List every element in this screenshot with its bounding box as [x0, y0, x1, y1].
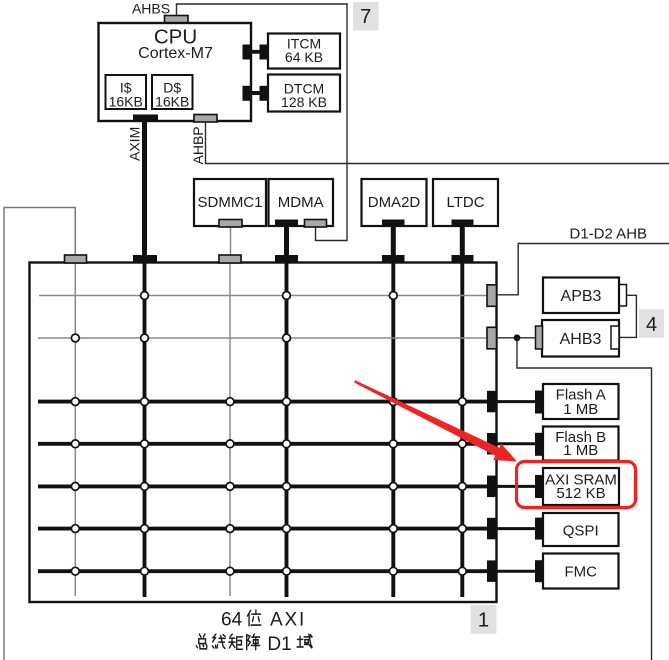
wire D1-D2 AHB	[497, 244, 669, 295]
ITCM link wire	[246, 50, 264, 54]
wire MDMA to matrix (thick)	[284, 226, 289, 258]
matrix row 5 (thick)	[38, 484, 490, 488]
svg-text:16KB: 16KB	[155, 94, 189, 110]
port matrix top col1 (gray)	[65, 255, 87, 263]
crosspoint circles row 5	[71, 483, 466, 491]
port AXI SRAM (black)	[535, 475, 544, 498]
port matrix right row6 (black)	[487, 518, 497, 540]
svg-text:AHBS: AHBS	[132, 1, 170, 17]
matrix row 1 (thin)	[39, 295, 490, 297]
I$ cache box	[106, 75, 147, 110]
svg-text:4: 4	[646, 314, 657, 336]
port AHB3 left (gray)	[536, 326, 543, 349]
port AHBP (gray) on CPU bottom	[194, 115, 217, 123]
Flash B box	[543, 427, 619, 461]
port AHBS (gray) on CPU top	[165, 16, 189, 24]
port MDMA AHBS side (gray)	[305, 220, 327, 228]
port matrix right row3 (black)	[487, 391, 497, 413]
port matrix top col6 (black)	[452, 255, 474, 263]
crosspoint circles row 1	[141, 292, 398, 300]
port matrix right row2 (gray)	[487, 327, 497, 349]
QSPI box	[543, 513, 619, 546]
wire DMA2D to matrix (thick)	[391, 226, 396, 258]
crosspoint circles row 6	[71, 525, 466, 533]
svg-text:64 KB: 64 KB	[285, 49, 323, 65]
port DMA2D (black)	[382, 220, 405, 228]
APB3 box	[543, 278, 619, 314]
crosspoint circles row 2	[71, 334, 290, 342]
svg-text:DMA2D: DMA2D	[368, 194, 421, 211]
MDMA box	[269, 179, 334, 226]
svg-text:MDMA: MDMA	[278, 194, 324, 211]
port FMC (black)	[535, 560, 544, 582]
svg-text:7: 7	[360, 6, 371, 28]
matrix row 3 (thick)	[38, 400, 490, 404]
svg-text:512 KB: 512 KB	[556, 485, 605, 502]
wire row2 to AHB3	[497, 337, 537, 339]
wire AHBS to MDMA (net 7 path)	[177, 4, 348, 241]
port CPU-DTCM (black)	[243, 86, 252, 101]
port Flash B (black)	[535, 433, 544, 456]
wire row7 to FMC	[497, 570, 538, 573]
DTCM box	[268, 75, 340, 112]
crosspoint circles row 7	[71, 567, 466, 575]
wire LTDC to matrix (thick)	[460, 226, 465, 258]
svg-text:1: 1	[478, 609, 489, 632]
CPU box	[99, 23, 252, 121]
AHB3 box	[542, 320, 619, 357]
D$ cache box	[152, 75, 193, 110]
FMC box	[543, 554, 619, 589]
matrix column 3 (thin)	[229, 263, 231, 596]
matrix column 1 (thin)	[74, 263, 76, 596]
matrix column 5 (thick)	[391, 263, 395, 597]
caption line 2: bus matrix D1 domain	[196, 634, 312, 655]
Flash A box	[543, 384, 619, 419]
port QSPI (black)	[535, 518, 544, 540]
junction dot	[514, 334, 521, 341]
port matrix top col2 (black)	[133, 255, 157, 263]
port matrix top col4 (black)	[275, 255, 298, 263]
caption line 1: 64 bit AXI	[221, 609, 306, 630]
port Flash A (black)	[535, 391, 544, 414]
port APB3 right tab	[619, 285, 627, 307]
wire left feeder to matrix column 1	[4, 208, 75, 660]
matrix row 7 (thick)	[38, 569, 490, 573]
red arrow	[354, 380, 517, 461]
svg-text:AHBP: AHBP	[190, 126, 206, 164]
svg-text:Cortex-M7: Cortex-M7	[138, 45, 213, 62]
svg-text:AXI: AXI	[270, 609, 306, 630]
port AXIM (black) on CPU bottom	[133, 115, 158, 123]
red highlight box around AXI SRAM	[517, 462, 636, 508]
svg-text:SDMMC1: SDMMC1	[197, 194, 262, 211]
port matrix right row7 (black)	[487, 560, 497, 582]
label 7 box	[353, 2, 379, 31]
matrix column 4 (thick)	[285, 263, 289, 597]
port AHB3 right (white)	[611, 326, 619, 349]
port SDMMC1 (gray)	[219, 220, 242, 228]
svg-text:FMC: FMC	[564, 564, 597, 581]
wire AHB3 branch down to bottom	[517, 338, 652, 660]
port matrix top col5 (black)	[382, 255, 405, 263]
matrix row 4 (thick)	[38, 442, 490, 446]
bus matrix box	[30, 263, 497, 603]
svg-text:LTDC: LTDC	[446, 194, 484, 211]
svg-text:APB3: APB3	[561, 288, 602, 305]
wire row3 to Flash A	[497, 400, 538, 403]
svg-text:D1: D1	[267, 634, 291, 655]
label 1 box	[471, 605, 497, 634]
svg-text:1 MB: 1 MB	[563, 442, 598, 459]
DTCM link wire	[246, 91, 264, 95]
LTDC box	[433, 179, 498, 226]
svg-text:AXIM: AXIM	[127, 127, 143, 161]
wire SDMMC1 to matrix (thin gray)	[230, 226, 232, 258]
port CPU-ITCM (black)	[243, 45, 252, 60]
svg-text:128 KB: 128 KB	[281, 94, 327, 110]
port DTCM side (black)	[260, 86, 270, 101]
label 4 box	[639, 309, 664, 338]
port MDMA master (black)	[275, 220, 298, 228]
port matrix right row1 (gray)	[487, 285, 497, 307]
port matrix right row5 (black)	[487, 476, 497, 498]
matrix column 6 (thick)	[460, 263, 464, 597]
svg-text:1 MB: 1 MB	[563, 401, 598, 418]
svg-text:16KB: 16KB	[109, 94, 143, 110]
port matrix right row4 (black)	[487, 433, 497, 455]
crosspoint circles row 4	[71, 440, 466, 448]
wire row5 to AXI SRAM	[497, 485, 538, 488]
port ITCM side (black)	[260, 45, 270, 60]
port LTDC (black)	[452, 220, 474, 228]
matrix row 6 (thick)	[38, 527, 490, 531]
svg-text:D1-D2 AHB: D1-D2 AHB	[570, 226, 648, 243]
AXI SRAM box	[543, 468, 619, 505]
wire row4 to Flash B	[497, 442, 538, 445]
wire AHBP to right edge	[206, 122, 669, 164]
svg-text:AHB3: AHB3	[560, 331, 602, 348]
SDMMC1 box	[194, 179, 266, 226]
DMA2D box	[362, 179, 427, 226]
wire APB3-AHB3 bracket (net 4)	[619, 295, 636, 337]
svg-text:QSPI: QSPI	[563, 523, 599, 540]
wire AXIM bus (thick)	[142, 121, 147, 258]
svg-text:64: 64	[221, 609, 243, 630]
port matrix top col3 (gray)	[219, 255, 241, 263]
ITCM box	[268, 34, 340, 69]
matrix row 2 (thin)	[38, 337, 490, 339]
crosspoint circles row 3	[71, 398, 466, 406]
wire row6 to QSPI	[497, 527, 538, 530]
matrix column 2 (thick)	[143, 263, 147, 597]
